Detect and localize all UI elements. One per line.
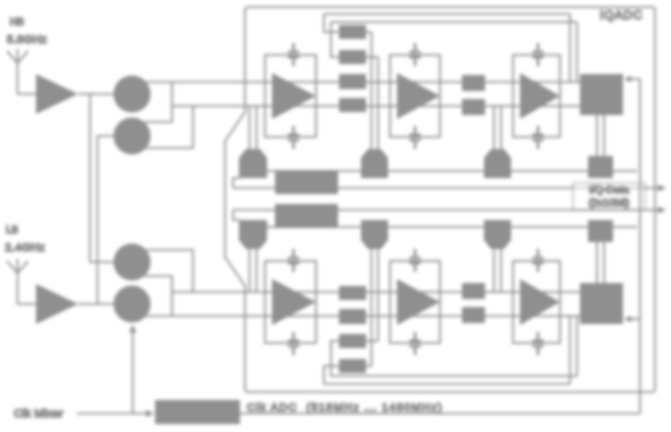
op-amp I stage3 feedback box	[513, 55, 560, 137]
wire I rail A	[240, 170, 637, 172]
capacitor Q stage1 C-top	[288, 332, 299, 355]
svg-text:Clk Mixer: Clk Mixer	[14, 408, 63, 420]
resistor I R3 (input)	[339, 74, 366, 89]
resistor Q R4 (input)	[339, 286, 366, 300]
wire I ADC to D4	[597, 115, 604, 156]
svg-text:I/Q-Data: I/Q-Data	[589, 184, 629, 196]
svg-text:2.4GHz: 2.4GHz	[5, 242, 45, 254]
svg-text:Clk ADC (518MHz ... 1480MHz): Clk ADC (518MHz ... 1480MHz)	[247, 402, 443, 414]
wire I D3 to signal	[494, 106, 501, 149]
capacitor Q stage1 C-bot	[288, 249, 299, 272]
op-amp Q A1	[272, 279, 316, 325]
arrow clk into divider	[146, 410, 154, 417]
op-amp Q stage3 feedback box	[513, 261, 560, 343]
DAC I D1	[239, 149, 267, 178]
svg-text:LB: LB	[6, 225, 19, 236]
arrow LO into mixer M4	[129, 325, 136, 333]
wire I R2 to summing node	[366, 57, 378, 149]
node HB split	[89, 93, 91, 95]
wire M2 tap to I+ line	[144, 82, 172, 122]
DAC Q D1	[239, 220, 267, 249]
capacitor I stage2 C-bot	[410, 126, 421, 149]
wire Q R2 to summing node	[366, 249, 378, 341]
wire I feedback line B	[331, 22, 577, 57]
wire HB to mixer M3 (vertical)	[90, 94, 114, 262]
block Q S2 (chopper)	[462, 283, 485, 299]
DAC I D2	[361, 149, 388, 178]
resistor Q R2 (feedback)	[339, 334, 366, 348]
wire Q D1 to signal	[250, 249, 257, 292]
wire I feedback line B right drop	[576, 22, 578, 82]
wire Q R1 to summing node	[366, 249, 372, 366]
op-amp I stage2 feedback box	[390, 55, 440, 137]
svg-text:(2x10bit): (2x10bit)	[589, 197, 630, 209]
capacitor Q stage2 C-top	[410, 332, 421, 355]
wire M2 tap to I- line	[146, 106, 193, 148]
wire LNA2 output to mixer M4	[78, 303, 114, 305]
wire I clock into ADC	[626, 78, 640, 80]
arrow I data output	[658, 184, 666, 191]
svg-text:HB: HB	[10, 17, 24, 28]
wire I rail B (output)	[233, 187, 658, 189]
wire Q clock into ADC	[626, 318, 640, 320]
wire Q D3 to signal	[494, 249, 501, 292]
wire LNA1 output to mixer M1	[78, 93, 114, 95]
wire M3 tap to Q- line	[146, 250, 193, 292]
wire I R1 to summing node	[366, 32, 372, 149]
wire Q feedback line B	[331, 341, 577, 376]
op-amp I A2	[397, 73, 440, 119]
capacitor I stage1 C-bot	[288, 126, 299, 149]
block I S1 (chopper)	[462, 75, 485, 91]
wire antenna LB to LNA2	[18, 303, 37, 305]
op-amp I A3	[520, 73, 560, 119]
mixer M4 (LB-Q)	[114, 286, 151, 323]
mixer M2 (LB-I)	[114, 118, 151, 155]
wire mixer M3 output line (Q-)	[172, 291, 580, 293]
op-amp Q stage1 feedback box	[265, 261, 316, 343]
capacitor Q stage2 C-bot	[410, 249, 421, 272]
DAC Q D3	[484, 220, 511, 249]
resistor I R1 (feedback)	[339, 25, 366, 39]
mixer M3 (HB-Q)	[114, 244, 151, 281]
block Q S1 (chopper)	[462, 307, 485, 323]
DAC Q D4 (feedback)	[588, 220, 613, 242]
DAC I D3	[484, 149, 511, 178]
svg-text:5.8GHz: 5.8GHz	[7, 34, 47, 46]
wire I D1 to signal	[250, 106, 257, 149]
block I S2 (chopper)	[462, 99, 485, 115]
wire M3 tap to Q+ line	[144, 276, 172, 316]
ADC I quantizer	[580, 74, 623, 115]
op-amp Q A3	[520, 279, 560, 325]
block Q DEM logic	[275, 204, 338, 228]
resistor I R4 (input)	[339, 98, 366, 112]
op-amp Q A2	[397, 279, 440, 325]
capacitor I stage3 C-top	[533, 43, 544, 66]
wire clk ADC riser	[639, 79, 641, 414]
op-amp Q stage2 feedback box	[390, 261, 440, 343]
capacitor Q stage3 C-bot	[533, 249, 544, 272]
ADC Q quantizer	[580, 283, 623, 324]
antenna HB 5.8GHz	[7, 49, 28, 94]
wire antenna HB to LNA1	[18, 93, 37, 95]
amplifier LNA2 (LB)	[36, 284, 78, 324]
op-amp I A1	[272, 73, 316, 119]
wire mixer M1 output line (I+)	[146, 81, 580, 83]
wire I feedback line A	[324, 14, 570, 32]
output label background	[573, 183, 645, 210]
arrow I ADC clock	[624, 76, 631, 82]
capacitor I stage3 C-bot	[533, 126, 544, 149]
DAC Q D2	[361, 220, 388, 249]
capacitor Q stage3 C-top	[533, 332, 544, 355]
arrow Q data output	[658, 206, 666, 213]
clock divider block	[155, 400, 240, 424]
wire clk ADC line	[240, 413, 640, 415]
wire I feedback line A right drop	[569, 14, 571, 82]
wire Q feedback line A right drop	[569, 316, 571, 384]
wire clk mixer line	[77, 413, 147, 415]
svg-text:IQADC: IQADC	[600, 8, 643, 22]
resistor Q R1 (feedback)	[339, 359, 366, 373]
wire Q rail joint	[233, 210, 240, 220]
op-amp I stage1 feedback box	[265, 55, 316, 137]
mixer M1 (HB-I)	[114, 76, 151, 113]
wire LB to mixer M2 (vertical)	[98, 136, 114, 304]
arrow Q ADC clock	[624, 316, 631, 322]
capacitor I stage2 C-top	[410, 43, 421, 66]
wire Q ADC to D4	[597, 242, 604, 283]
resistor Q R3 (input)	[339, 309, 366, 324]
wire I rail joint	[233, 178, 240, 188]
wire Q feedback line A	[324, 366, 570, 384]
antenna LB 2.4GHz	[7, 259, 28, 304]
DAC I D4 (feedback)	[588, 156, 613, 178]
capacitor I stage1 C-top	[288, 43, 299, 66]
wire LO branch up	[132, 331, 134, 414]
wire mixer M2 output line (I-)	[172, 105, 580, 107]
resistor I R2 (feedback)	[339, 50, 366, 64]
IQADC block outline	[225, 7, 655, 392]
wire mixer M4 output line (Q+)	[146, 315, 580, 317]
wire Q rail A	[240, 226, 637, 228]
wire Q feedback line B right drop	[576, 316, 578, 376]
wire Q rail B (output)	[233, 209, 658, 211]
block I DEM logic	[275, 170, 338, 194]
amplifier LNA1 (HB)	[36, 74, 78, 114]
